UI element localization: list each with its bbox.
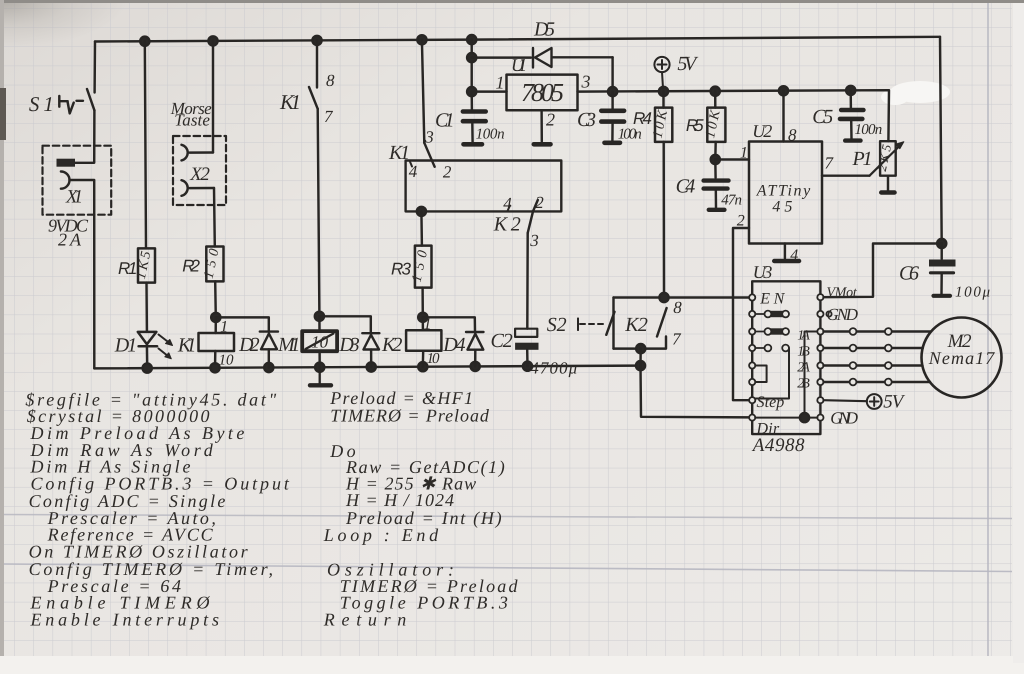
MCU U2 ATTiny45 box [749, 142, 822, 244]
routing box K1/K2 [406, 161, 562, 212]
wire: M1 top node to D3 [319, 316, 370, 332]
contact tick pin4 top [410, 161, 413, 167]
jumper row 3 inside U3 (open) [755, 347, 765, 349]
svg-text:8: 8 [673, 298, 682, 317]
node: U1 input [467, 87, 476, 96]
svg-text:100μ: 100μ [955, 285, 990, 301]
svg-text:10: 10 [311, 333, 329, 352]
motor M1 box [302, 331, 337, 351]
node: R5 top [711, 87, 720, 96]
ground: C1 [464, 142, 483, 147]
ground: U2 pin4 [774, 259, 799, 263]
wire: K2 coil top node to D4 [423, 317, 475, 331]
node: rail/X2 [208, 36, 217, 45]
connector X1 dashed box [43, 146, 112, 215]
contact tick pin4 bottom [508, 206, 511, 212]
power symbol +5V top [654, 57, 669, 72]
wire: motor phase 2A [824, 364, 923, 366]
connector circles motor wires col1 [850, 328, 857, 385]
resistor R5 [707, 108, 725, 142]
node: inside U3 GND [800, 413, 809, 422]
switch S1 blade [87, 89, 94, 110]
node: rail/D1 [143, 364, 152, 373]
wire: U2 pin7 to P1 wiper [822, 174, 870, 176]
wire: M1 to rail [318, 351, 321, 367]
node: rail/K1 contact [312, 36, 321, 45]
svg-text:M1: M1 [277, 334, 300, 356]
wire: D3 to rail [370, 350, 373, 368]
svg-text:C2: C2 [491, 330, 513, 352]
capacitor C3 [601, 111, 624, 122]
ground: U1 pin2 [534, 142, 551, 147]
svg-text:7: 7 [672, 330, 682, 349]
wire: S1 to X1 plug [75, 110, 94, 163]
connector X2 jack upper [182, 145, 214, 161]
wire: U2 pin2 to Step [733, 228, 752, 400]
relay changeover K2 blade stub [533, 200, 538, 211]
svg-text:100n: 100n [618, 127, 642, 143]
svg-text:U1: U1 [511, 55, 527, 75]
node: rail/C1-U1 input [467, 35, 476, 44]
pin circles U3 right edge [817, 294, 831, 421]
diode D2 [260, 332, 278, 350]
svg-text:1: 1 [496, 73, 505, 93]
svg-text:2: 2 [546, 110, 555, 130]
wire: R4 stem [662, 91, 664, 107]
svg-text:GND: GND [830, 409, 858, 428]
pin circles U3 left edge [749, 294, 755, 420]
handwritten BASCOM code column 1 [25, 390, 289, 630]
svg-text:3: 3 [581, 72, 591, 92]
wire: R2 to K1 coil node [214, 281, 217, 317]
node: K2 contact / Dir branch [636, 344, 645, 353]
wire: K2 contact left bracket [612, 298, 614, 349]
svg-text:Step: Step [757, 394, 785, 411]
svg-text:A4988: A4988 [751, 435, 805, 456]
wire: rail to Dir [641, 366, 753, 418]
svg-text:D4: D4 [442, 334, 465, 356]
wire: D5 cathode down to 5V node [611, 57, 613, 91]
svg-text:R5: R5 [686, 116, 704, 135]
svg-text:K1: K1 [177, 335, 197, 357]
jumper row 2 inside U3 [755, 331, 765, 333]
diode D3 [362, 333, 379, 349]
svg-text:C3: C3 [577, 109, 596, 131]
node: rail/R1 [140, 37, 149, 46]
wire: K1 changeover common from rail [422, 40, 424, 143]
svg-text:K1: K1 [279, 90, 301, 114]
svg-text:R3: R3 [391, 260, 412, 279]
svg-text:2A: 2A [58, 230, 82, 250]
wire: D2 to rail [268, 349, 270, 367]
LED D1 [138, 332, 157, 346]
svg-text:9VDC: 9VDC [48, 216, 89, 236]
svg-text:TIMERØ = Preload: TIMERØ = Preload [330, 406, 490, 426]
switch S2 blade [606, 312, 614, 335]
resistor R2 [206, 247, 223, 282]
svg-text:1: 1 [424, 316, 432, 333]
resistor R1 [138, 248, 155, 282]
svg-text:2: 2 [737, 213, 745, 230]
svg-text:100n: 100n [855, 122, 883, 138]
regulator U1 7805 box [507, 75, 578, 111]
ground: C5 [845, 138, 860, 142]
svg-text:1: 1 [740, 145, 748, 162]
node: M1 top [315, 312, 324, 321]
switch S2 linkage [578, 319, 604, 331]
wire: P1 to ground [887, 176, 889, 191]
relay changeover K2 blade [528, 211, 533, 233]
wire: node to K2 coil [422, 317, 425, 330]
wire: K1 coil to bottom rail [214, 351, 217, 368]
svg-text:1A: 1A [797, 329, 810, 344]
wire: X2 branch from rail [212, 41, 214, 153]
node: rail/K1 changeover [417, 35, 426, 44]
svg-text:C6: C6 [899, 263, 919, 285]
svg-text:8: 8 [788, 126, 797, 145]
svg-text:K2: K2 [624, 314, 648, 336]
wire: Dir row inside U3 [755, 417, 817, 419]
wire: pin1 link [715, 158, 749, 160]
svg-text:D2: D2 [238, 334, 260, 356]
ground: C6 [934, 294, 951, 298]
node: K1 coil top [211, 313, 220, 322]
driver U3 A4988 box [752, 281, 820, 434]
svg-text:H = H / 1024: H = H / 1024 [345, 490, 454, 510]
svg-text:C1: C1 [435, 110, 455, 132]
node: K2 coil top [418, 313, 427, 322]
node: rail/C2 [523, 362, 532, 371]
svg-text:2: 2 [443, 163, 452, 182]
capacitor C1 [463, 112, 486, 122]
wire: C6 stem [940, 244, 942, 260]
relay contact K2 blade [657, 308, 667, 337]
svg-text:K2: K2 [493, 214, 521, 236]
svg-text:U2: U2 [752, 121, 772, 141]
power symbol +5V lower [867, 394, 882, 409]
wire: R1 branch from rail [145, 41, 146, 248]
wire: U1 input link [472, 90, 507, 92]
svg-text:8: 8 [326, 71, 335, 90]
svg-text:R4: R4 [633, 109, 652, 128]
svg-text:P1: P1 [852, 148, 873, 170]
wire: K2 contact EN line [614, 296, 753, 298]
connector circles motor wires col2 [885, 328, 892, 385]
wire: top supply rail [95, 37, 940, 42]
wire: D4 to rail [474, 350, 477, 367]
LED D1 arrows [159, 335, 170, 357]
wire: VMot to C6 node [824, 244, 942, 298]
wire: R4 to EN node [662, 142, 665, 298]
node: rail/K2 coil [418, 362, 427, 371]
wire: U2 pin4 stem [784, 244, 786, 259]
svg-text:ATTiny: ATTiny [756, 183, 811, 200]
svg-text:5V: 5V [883, 392, 906, 413]
diode D5 [533, 48, 552, 68]
capacitor C4 [704, 181, 729, 189]
wire: C4 stem [714, 160, 717, 178]
wire: K1 contact branch from rail [316, 40, 318, 87]
connector X1 plug (filled) [57, 159, 76, 167]
heavy ruled line B [0, 564, 1012, 572]
node: box bottom / R3 [417, 207, 426, 216]
svg-text:1: 1 [220, 319, 228, 336]
photo top edge [0, 0, 1024, 3]
wire: bottom return rail [94, 366, 640, 369]
svg-text:4: 4 [503, 194, 512, 213]
resistor R4 [655, 108, 672, 142]
wire: U3 pins 5-6 loop [755, 366, 766, 383]
capacitor C2 minus plate (filled) [515, 343, 538, 350]
switch S1 actuator symbol [59, 96, 83, 113]
motor M1 slash [306, 334, 334, 350]
wire: R3 to K2 coil node [421, 288, 424, 318]
node: rail/K2 contact [636, 361, 645, 370]
svg-text:5V: 5V [677, 53, 699, 75]
wire: K2 coil to rail [422, 351, 425, 367]
wire: node to M1 [318, 316, 321, 331]
wire: box to R3 [420, 211, 423, 245]
white-out correction blob [890, 81, 950, 103]
wire: C5 stem [849, 90, 852, 108]
svg-text:10: 10 [219, 353, 234, 369]
svg-text:1B: 1B [797, 345, 810, 360]
diode D4 [466, 332, 484, 350]
svg-text:3: 3 [529, 231, 539, 250]
connector X1 jack arc [61, 172, 70, 189]
svg-text:C5: C5 [812, 106, 833, 128]
node: U2 pin8 [779, 86, 788, 95]
ground: P1 [881, 190, 894, 194]
wire: D5 anode line [472, 56, 613, 59]
wire: C6 minus stem [940, 273, 943, 294]
photo bottom band [0, 656, 1024, 674]
node: U2 pin1 / C4 [711, 155, 720, 164]
svg-text:GND: GND [827, 305, 859, 324]
node: rail/D4 [471, 362, 480, 371]
handwritten BASCOM code column 2 [323, 388, 519, 630]
svg-text:Toggle PORTB.3: Toggle PORTB.3 [340, 593, 508, 613]
wire: K2 contact bottom link [614, 337, 667, 349]
connector X2 dashed box [173, 136, 226, 205]
svg-text:4: 4 [790, 247, 798, 264]
wire: C5 to ground [850, 119, 853, 139]
wire: rail down to S1 [93, 42, 96, 93]
svg-text:2A: 2A [797, 361, 810, 376]
node: rail/D2 [264, 363, 273, 372]
wire: C1 to ground [471, 121, 474, 142]
svg-text:X1: X1 [65, 187, 83, 208]
ground: C3 [605, 141, 621, 146]
photo left edge dark blotch [0, 88, 6, 140]
wire: D1 to bottom rail [146, 346, 149, 368]
wire: U1 pin2 [540, 110, 543, 141]
svg-text:D1: D1 [114, 335, 137, 357]
svg-text:2: 2 [535, 193, 544, 212]
wire: node to K1 coil [214, 317, 217, 333]
svg-text:VMot: VMot [827, 286, 858, 301]
svg-text:D3: D3 [338, 334, 359, 356]
svg-text:Taste: Taste [174, 111, 210, 130]
wire: contact node to rail node [639, 349, 642, 366]
wire: C3 stem [611, 92, 613, 110]
wire: 5V output rail [578, 90, 890, 141]
svg-text:2B: 2B [797, 377, 810, 392]
wire: motor phase 2B [824, 381, 931, 383]
photo left edge [0, 0, 4, 674]
node: rail/D3 [367, 362, 376, 371]
svg-text:D5: D5 [533, 19, 555, 41]
svg-text:Enable Interrupts: Enable Interrupts [30, 610, 220, 630]
svg-text:X2: X2 [189, 164, 210, 185]
connector X2 jack lower [182, 180, 215, 196]
node: C6 top [937, 239, 946, 248]
svg-text:10: 10 [427, 351, 441, 367]
svg-text:K1: K1 [388, 142, 410, 164]
svg-text:4: 4 [409, 162, 418, 181]
wire: K1 coil top node to D2 [216, 317, 269, 331]
node: D5 tap [467, 53, 476, 62]
photo right band [1013, 3, 1024, 663]
wire: R1 to D1 [145, 283, 148, 332]
wire: R5 stem [714, 91, 717, 107]
relay changeover K1 blade [424, 143, 434, 167]
capacitor C6 (electrolytic) [929, 260, 956, 267]
svg-text:S2: S2 [547, 314, 567, 336]
node: C5 top [846, 86, 855, 95]
wire: C1 branch from rail [470, 40, 472, 92]
node: U1 out / D5 [608, 87, 617, 96]
wire: 5V row stub [824, 400, 867, 401]
node: R4 top [659, 87, 668, 96]
node: rail/M1-ground [315, 363, 324, 372]
wire: C3 to ground [611, 122, 614, 141]
potentiometer P1 box [880, 141, 896, 176]
relay coil K1 [199, 333, 235, 351]
ground: C4 [709, 208, 725, 212]
heavy ruled vertical margin [987, 3, 989, 656]
node: EN / R4 [659, 293, 668, 302]
wire: C2 to rail [526, 350, 529, 366]
resistor R3 [415, 246, 432, 288]
wire: K2 changeover to C2 [526, 233, 529, 329]
svg-text:4700μ: 4700μ [530, 359, 577, 378]
wire: motor phase 1B [824, 347, 923, 349]
svg-text:47n: 47n [721, 193, 742, 209]
wire: K1 contact down to M1 [318, 109, 320, 316]
jumper row 1 inside U3 [755, 313, 765, 315]
wire: motor phase 1A [824, 330, 932, 332]
svg-text:3: 3 [424, 128, 434, 147]
svg-text:C4: C4 [676, 176, 696, 198]
svg-text:K2: K2 [381, 334, 402, 356]
capacitor C5 [840, 110, 863, 119]
motor M2 circle [922, 318, 1002, 398]
node: rail/K1 coil [210, 363, 219, 372]
wire: R5 to pin1 node [714, 142, 717, 160]
heavy ruled line A [0, 515, 1012, 519]
ground: main [310, 367, 331, 385]
svg-text:R2: R2 [182, 257, 200, 276]
svg-text:U3: U3 [753, 262, 773, 282]
wire: X1 jack to ground branch [70, 180, 95, 368]
relay contact K1 blade [309, 87, 318, 109]
capacitor C2 plus plate [515, 329, 537, 337]
wire: rail right side down [940, 37, 942, 244]
svg-text:Nema17: Nema17 [928, 348, 996, 368]
wire: 1A to GND link inside U3 [805, 332, 818, 418]
wire: C1 stem [470, 92, 473, 111]
svg-text:100n: 100n [476, 127, 505, 143]
wire: jumper to Step [755, 348, 789, 399]
relay coil K2 [406, 330, 441, 351]
potentiometer P1 wiper arrow [870, 145, 902, 176]
wire: C4 to ground [715, 189, 718, 208]
wire: X2 to R2 [213, 188, 216, 247]
wire: U2 pin8 stem [782, 91, 784, 142]
svg-text:7805: 7805 [521, 78, 564, 107]
